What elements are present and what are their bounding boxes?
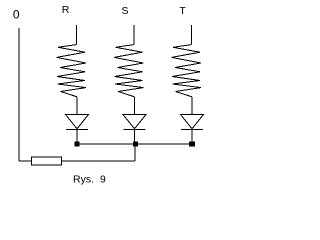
wire phase R top lead (76, 25, 78, 45)
svg-text:S: S (121, 5, 128, 17)
svg-text:Rys.: Rys. (73, 173, 94, 185)
svg-text:T: T (179, 5, 186, 17)
wire diode D2 cathode to bus (134, 129, 136, 144)
resistor T (phase T coil) (172, 45, 202, 97)
diode D3 (phase T) (181, 115, 204, 130)
wire resistor T to diode D3 anode (191, 97, 193, 115)
node S label (121, 5, 128, 17)
diode D1 (phase R) (66, 115, 89, 130)
svg-text:R: R (62, 4, 70, 16)
node R label (62, 4, 70, 16)
junction node at D1 cathode (75, 142, 80, 147)
resistor Rload (box) (32, 157, 62, 165)
wire resistor R to diode D1 anode (76, 97, 78, 115)
wire riser from bottom wire to bus junction (134, 144, 136, 161)
wire load resistor to midpoint riser (62, 160, 136, 162)
junction node at D2 cathode (133, 142, 138, 147)
junction node at D3 cathode (bus end) (189, 142, 195, 147)
svg-text:9: 9 (100, 173, 106, 185)
resistor R (phase R coil) (57, 45, 87, 97)
caption Rys. 9 (73, 173, 106, 185)
wire phase T top lead (191, 25, 193, 45)
wire neutral 0 vertical (18, 28, 20, 161)
wire phase S top lead (133, 25, 135, 45)
wire diode D1 cathode to bus (76, 129, 78, 144)
wire cathode bus (77, 143, 193, 145)
node 0 label (13, 7, 20, 21)
node T label (179, 5, 186, 17)
diode D2 (phase S) (123, 115, 146, 130)
svg-text:0: 0 (13, 7, 20, 21)
wire neutral 0 bottom horizontal to load resistor (19, 160, 32, 162)
resistor S (phase S coil) (114, 45, 144, 97)
wire diode D3 cathode to bus (191, 129, 193, 144)
wire resistor S to diode D2 anode (134, 97, 136, 115)
